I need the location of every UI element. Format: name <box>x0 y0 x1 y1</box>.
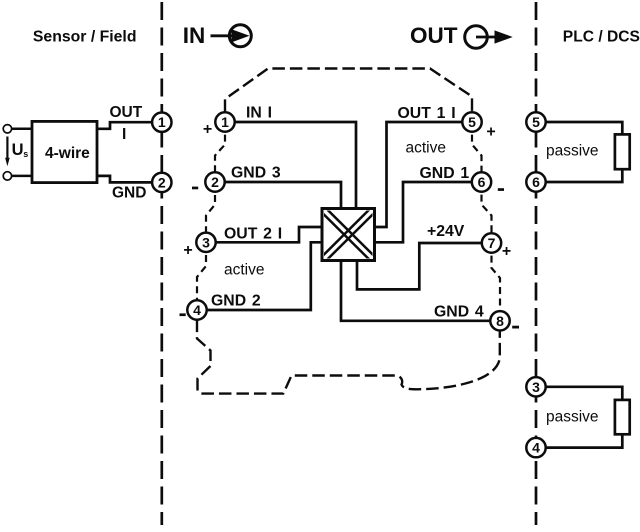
svg-text:I: I <box>122 126 126 143</box>
svg-text:GND: GND <box>112 185 146 202</box>
svg-text:IN: IN <box>183 23 206 48</box>
svg-text:+: + <box>203 121 212 138</box>
svg-text:2: 2 <box>211 174 219 190</box>
svg-text:Sensor / Field: Sensor / Field <box>33 28 137 45</box>
svg-text:4: 4 <box>193 302 201 318</box>
svg-text:5: 5 <box>468 114 476 130</box>
svg-text:6: 6 <box>478 174 486 190</box>
svg-text:OUT 1 I: OUT 1 I <box>398 105 456 122</box>
svg-text:OUT 2 I: OUT 2 I <box>224 226 282 243</box>
svg-text:2: 2 <box>158 174 166 190</box>
svg-text:+: + <box>486 124 495 141</box>
svg-text:4: 4 <box>532 440 540 456</box>
svg-text:1: 1 <box>221 114 229 130</box>
svg-text:PLC / DCS: PLC / DCS <box>563 28 640 45</box>
svg-text:GND 3: GND 3 <box>231 164 281 181</box>
svg-text:OUT: OUT <box>410 23 458 48</box>
svg-text:5: 5 <box>532 114 540 130</box>
svg-text:s: s <box>23 149 28 159</box>
svg-text:4-wire: 4-wire <box>45 145 90 162</box>
svg-text:IN I: IN I <box>246 105 272 122</box>
svg-text:active: active <box>224 262 265 279</box>
svg-text:passive: passive <box>546 409 599 426</box>
svg-text:6: 6 <box>532 174 540 190</box>
svg-text:U: U <box>12 141 24 159</box>
svg-text:7: 7 <box>488 235 496 251</box>
svg-text:+24V: +24V <box>427 223 465 240</box>
svg-text:3: 3 <box>202 234 210 250</box>
svg-text:1: 1 <box>158 114 166 130</box>
svg-text:+: + <box>502 243 511 260</box>
svg-text:3: 3 <box>532 379 540 395</box>
svg-text:GND 1: GND 1 <box>420 165 470 182</box>
svg-text:8: 8 <box>496 313 504 329</box>
svg-text:OUT: OUT <box>110 104 143 121</box>
svg-text:+: + <box>183 242 192 259</box>
svg-text:active: active <box>406 140 447 157</box>
svg-text:passive: passive <box>546 142 599 159</box>
svg-text:GND 2: GND 2 <box>211 292 261 309</box>
svg-text:GND 4: GND 4 <box>434 303 484 320</box>
